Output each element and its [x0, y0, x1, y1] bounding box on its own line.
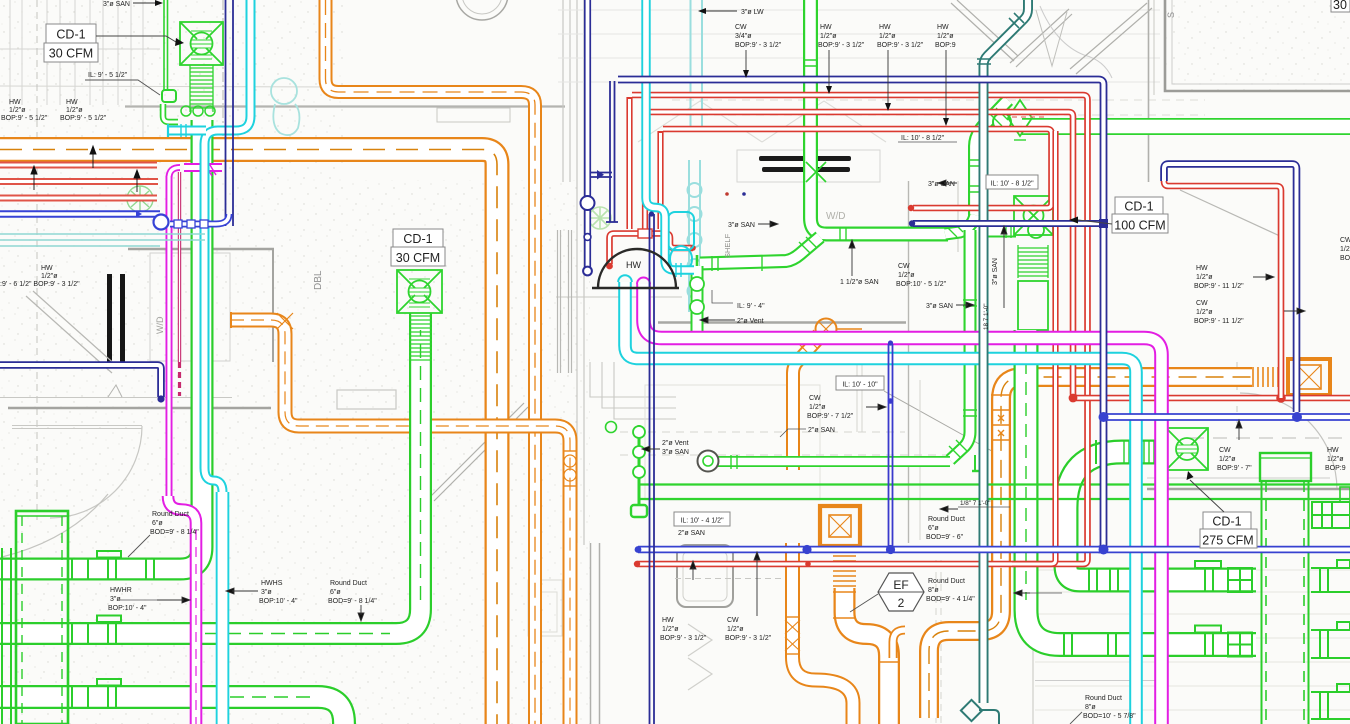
HW dome sink [598, 249, 676, 288]
navy U loop top right [1164, 164, 1297, 412]
svg-text:8"ø: 8"ø [928, 587, 939, 594]
cold water main across [618, 275, 1136, 724]
svg-text:CW: CW [1196, 300, 1208, 307]
duct joint ticks band3 [72, 679, 121, 709]
wall vertical x908 [908, 181, 910, 543]
vent riser duct D with elbow symbol [816, 319, 863, 340]
label box CD-1 100 CFM [1069, 197, 1168, 233]
gray V wing wall [1036, 10, 1067, 66]
flex to diffuser right [1124, 441, 1159, 463]
HWHS HWHR thin lines [640, 485, 1350, 500]
dashed studs mid bottom [935, 560, 937, 724]
svg-text:CD-1: CD-1 [1124, 200, 1153, 214]
svg-text:1/2"ø: 1/2"ø [662, 626, 679, 633]
svg-text:18 7 1'-0": 18 7 1'-0" [983, 303, 990, 330]
round duct S drop to band2 [0, 313, 421, 634]
svg-text:Round Duct: Round Duct [1085, 695, 1122, 702]
svg-text:1/2"ø: 1/2"ø [820, 33, 837, 40]
svg-text:3"ø SAN: 3"ø SAN [728, 222, 755, 229]
floor drain [698, 451, 719, 472]
HW CW labels right [1194, 265, 1244, 325]
shelf lines [12, 425, 142, 427]
ceiling slope lines [638, 101, 886, 142]
svg-text:30 CFM: 30 CFM [49, 47, 93, 61]
svg-text:HW: HW [9, 99, 21, 106]
svg-text:BOP:10' - 4": BOP:10' - 4" [108, 605, 147, 612]
faint dashed lines mid [672, 100, 1205, 130]
door swing arc lower left [2, 494, 108, 557]
svg-text:CD-1: CD-1 [1212, 515, 1241, 529]
counter line y297 [556, 296, 682, 298]
label box CD-1 275 CFM [1187, 471, 1258, 548]
small dots mid [725, 192, 729, 196]
flex connector to damper box [1253, 367, 1283, 387]
svg-text:3"ø SAN: 3"ø SAN [103, 1, 130, 8]
wall vertical x1148 [1148, 0, 1150, 182]
svg-text:CW: CW [735, 24, 747, 31]
svg-text:CW: CW [727, 617, 739, 624]
svg-text:3"ø: 3"ø [110, 596, 121, 603]
svg-text:3"ø: 3"ø [261, 589, 272, 596]
svg-text:3"ø SAN: 3"ø SAN [992, 258, 999, 285]
svg-text:BOP:9' - 11 1/2": BOP:9' - 11 1/2" [1194, 318, 1244, 325]
cyan fixture riser mid [646, 0, 694, 277]
svg-text:IL: 10' - 10": IL: 10' - 10" [842, 382, 878, 389]
navy horizontal mid right [909, 219, 1108, 228]
navy pair mid vertical [649, 211, 654, 724]
round duct R drop to band1 [0, 120, 202, 569]
wall vertical x273 [272, 249, 274, 362]
right edge band stubs [1311, 560, 1350, 719]
wall section black bar 2 [120, 274, 125, 366]
wall verticals x557 x568 [558, 230, 572, 373]
fire damper box middle [820, 506, 860, 546]
navy tee fitting [590, 170, 612, 180]
concrete speckle storage room top right [1166, 0, 1350, 91]
door leaf diagonal [430, 403, 528, 501]
counter ledge [437, 108, 510, 122]
concrete speckle middle band [345, 180, 590, 724]
supply duct A riser top-left [326, 0, 536, 724]
diffuser CD-1 mid-left with flex [397, 270, 442, 313]
fitting cluster right mid [1312, 487, 1350, 528]
svg-text:BOP:9: BOP:9 [935, 42, 956, 49]
svg-text:HW: HW [937, 24, 949, 31]
svg-text:IL: 10' - 4 1/2": IL: 10' - 4 1/2" [680, 518, 724, 525]
svg-text:W/D: W/D [155, 316, 165, 334]
svg-text:1/2"ø: 1/2"ø [1219, 456, 1236, 463]
svg-text:6"ø: 6"ø [928, 525, 939, 532]
door jamb [108, 385, 122, 397]
exhaust duct F jog left [785, 543, 853, 724]
laundry room outline [150, 253, 230, 361]
cleanout stub [972, 455, 988, 471]
svg-text:BOP:9' - 5 1/2": BOP:9' - 5 1/2" [60, 115, 107, 122]
svg-text:1/2: 1/2 [1340, 246, 1350, 253]
CW BOP 9-7 labels mid [807, 395, 854, 420]
label box 30 partial top right [1331, 0, 1350, 12]
svg-text:3"ø SAN: 3"ø SAN [662, 449, 689, 456]
svg-text:3"ø SAN: 3"ø SAN [926, 303, 953, 310]
top label leaders [743, 50, 949, 126]
left edge duct riser [2, 548, 11, 724]
svg-text:HW: HW [41, 265, 53, 272]
faint ceiling grid top middle [558, 10, 1160, 82]
svg-text:CW: CW [898, 263, 910, 270]
HW pipe B long [647, 112, 1350, 403]
svg-text:BOP:9' - 3 1/2": BOP:9' - 3 1/2" [660, 635, 707, 642]
grid dashed column line [36, 0, 38, 520]
svg-text:1/2"ø: 1/2"ø [809, 404, 826, 411]
svg-text:HW: HW [662, 617, 674, 624]
svg-text:2: 2 [898, 596, 905, 610]
svg-text:EF: EF [893, 578, 908, 592]
svg-text:BOD=9' - 8 1/4": BOD=9' - 8 1/4" [150, 529, 199, 536]
wall line y322 [658, 321, 906, 324]
svg-text:HW: HW [1327, 447, 1339, 454]
svg-text:W/D: W/D [826, 211, 845, 222]
grid dash-dot line [222, 0, 224, 162]
door swing arc [50, 426, 142, 518]
svg-text:1/2"ø: 1/2"ø [937, 33, 954, 40]
svg-text:BOD=9' - 8 1/4": BOD=9' - 8 1/4" [328, 598, 377, 605]
wall section black bar 1 [107, 274, 112, 366]
svg-text:HWHR: HWHR [110, 587, 132, 594]
LW teal riser [977, 0, 1028, 703]
HW pipe left 2 [0, 178, 158, 185]
big vertical plenum left [16, 511, 68, 724]
blue pump line left [0, 211, 229, 230]
return duct riser to band2 right [1026, 330, 1256, 645]
fire damper box right [1288, 359, 1330, 395]
svg-text:Round Duct: Round Duct [928, 516, 965, 523]
faint floor lines bottom right [1035, 570, 1350, 710]
tile chevrons [688, 624, 712, 690]
svg-text:BOP:10' - 4": BOP:10' - 4" [259, 598, 298, 605]
leader diagonal to drain [884, 391, 1008, 460]
svg-text:DBL: DBL [313, 270, 324, 290]
diffuser CD-1 275 right [1166, 428, 1208, 470]
exhaust grille square mid [1014, 196, 1053, 238]
diffuser CD-1 top-left with flex [180, 22, 223, 65]
CW BOP 10-5 label [896, 263, 947, 288]
flex below damper box [833, 551, 856, 586]
millwork box [737, 150, 880, 182]
red risers to lav manifold [630, 97, 661, 229]
svg-text:CD-1: CD-1 [403, 232, 432, 246]
light teal lines left [0, 234, 205, 246]
navy riser with valve [581, 0, 595, 275]
duct E couplings [991, 395, 1011, 440]
Round Duct 6 label green [328, 580, 377, 605]
CW CD labels right mid [1217, 447, 1252, 472]
svg-text:1/2"ø: 1/2"ø [898, 272, 915, 279]
svg-text:1/2"ø: 1/2"ø [1327, 456, 1344, 463]
svg-text:HW: HW [1196, 265, 1208, 272]
svg-text:1/2"ø: 1/2"ø [727, 626, 744, 633]
top labels row [735, 9, 956, 49]
curtain arcs [1040, 6, 1112, 78]
svg-text:BOP:9' - 5 1/2": BOP:9' - 5 1/2" [1, 115, 48, 122]
ghost fan symbol [589, 207, 611, 229]
svg-text:1 1/2"ø SAN: 1 1/2"ø SAN [840, 279, 879, 286]
svg-text:Round Duct: Round Duct [330, 580, 367, 587]
roof diagonal right [1180, 190, 1282, 237]
svg-text:275 CFM: 275 CFM [1202, 534, 1253, 548]
sanitary wye west leg [945, 215, 975, 237]
navy riser pair left [226, 0, 234, 226]
svg-text:2"ø SAN: 2"ø SAN [808, 427, 835, 434]
svg-text:S: S [1166, 12, 1176, 18]
svg-text:IL: 10' - 8 1/2": IL: 10' - 8 1/2" [990, 181, 1034, 188]
WC cyan fixture [668, 212, 694, 272]
svg-text:BOP:10' - 5 1/2": BOP:10' - 5 1/2" [896, 281, 947, 288]
svg-text:2"ø Vent: 2"ø Vent [737, 318, 764, 325]
svg-text:HW: HW [66, 99, 78, 106]
exhaust duct G jog [833, 588, 900, 724]
svg-text:BOP:9' - 3 1/2": BOP:9' - 3 1/2" [818, 42, 865, 49]
svg-text:BOP:9' - 3 1/2": BOP:9' - 3 1/2" [735, 42, 782, 49]
svg-text:IL: 10' - 8 1/2": IL: 10' - 8 1/2" [901, 135, 945, 142]
wall line y249 [128, 248, 274, 250]
svg-text:HW: HW [626, 260, 641, 270]
wall verticals x590 x599 bottom [590, 543, 592, 724]
cyan drop lower widen [216, 492, 230, 724]
svg-text:2"ø Vent: 2"ø Vent [662, 440, 689, 447]
cold water top-left run [168, 0, 251, 724]
door swing arc right [1240, 393, 1337, 490]
svg-text:CW: CW [809, 395, 821, 402]
svg-text:3/4"ø: 3/4"ø [735, 33, 752, 40]
drain line to floor drain [718, 455, 950, 469]
closet shelf bar 1 [759, 156, 851, 161]
svg-text:HWHS: HWHS [261, 580, 283, 587]
svg-text:100 CFM: 100 CFM [1114, 219, 1165, 233]
CW partial right edge [1340, 237, 1350, 262]
svg-text:BOP: BOP [1340, 255, 1350, 262]
Round Duct 6 label mid [926, 516, 965, 541]
svg-text:1/2"ø: 1/2"ø [66, 107, 83, 114]
sanitary main 3in SAN riser [803, 0, 948, 241]
svg-text:BOP:9' - 3 1/2": BOP:9' - 3 1/2" [725, 635, 772, 642]
svg-text:BOP:9' - 3 1/2": BOP:9' - 3 1/2" [877, 42, 924, 49]
cabinet box [337, 390, 396, 409]
light aqua ghost lines [271, 78, 299, 135]
band end boxes [1228, 568, 1252, 657]
HW labels left [1, 99, 107, 122]
svg-text:1/2"ø: 1/2"ø [41, 273, 58, 280]
wall line y408 [8, 407, 271, 409]
HWHR label [108, 587, 147, 612]
duct band3 [0, 697, 344, 724]
svg-text:BOD=10' - 5 7/8": BOD=10' - 5 7/8" [1083, 713, 1136, 720]
stair diagonal to storage [1070, 3, 1152, 74]
lavatory circle top middle [456, 0, 508, 20]
EF 2 hexagon [850, 573, 924, 612]
left arrow bottom right room [1014, 590, 1030, 596]
floor line y680 [1035, 680, 1160, 682]
svg-text:2"ø SAN: 2"ø SAN [678, 530, 705, 537]
HW loop top right [1161, 169, 1281, 398]
HW CW bottom labels [660, 617, 707, 642]
sanitary drop left of branch [690, 266, 704, 332]
Round Duct 6 label magenta [150, 511, 199, 536]
svg-text:1/2"ø: 1/2"ø [1196, 309, 1213, 316]
light aqua pipes top middle [688, 0, 703, 312]
room partition lines mid [620, 362, 960, 540]
svg-text:CW: CW [1340, 237, 1350, 244]
svg-text:Round Duct: Round Duct [928, 578, 965, 585]
CW pipe C [663, 129, 1052, 211]
exhaust duct E long run [929, 377, 1252, 718]
Round Duct 8 bottom label [1083, 695, 1136, 720]
supply duct B main horizontal [0, 150, 497, 724]
wall line y489 right [1147, 488, 1350, 490]
svg-text:BOP:9' - 11 1/2": BOP:9' - 11 1/2" [1194, 283, 1244, 290]
ceiling fan symbol [127, 186, 153, 212]
duct joint ticks band2 [72, 616, 121, 646]
IL boxes [674, 175, 1038, 526]
stair diagonal [26, 291, 119, 373]
CW riser pair right [1012, 131, 1056, 564]
navy branch down x613 [606, 81, 618, 222]
svg-text:30: 30 [1333, 0, 1347, 12]
svg-text::9' - 6 1/2" BOP:9' - 3 1/2": :9' - 6 1/2" BOP:9' - 3 1/2" [0, 281, 80, 288]
duct section ticks right bands [1064, 440, 1221, 657]
concrete speckle left band [0, 0, 345, 724]
gas pipe left riser [169, 160, 222, 499]
HWHS label [259, 580, 298, 605]
sanitary wye and riser right [968, 100, 1011, 232]
navy supply main top [618, 80, 1104, 550]
heater fitting stack [606, 422, 648, 518]
dashed stud x1237 [1236, 362, 1238, 428]
svg-text:1/2"ø: 1/2"ø [9, 107, 26, 114]
storage room walls [1165, 0, 1350, 91]
stud grid lines top-left [0, 0, 340, 160]
dashed counter line bottom middle [675, 578, 790, 580]
sanitary stack down + 45 to drain [949, 230, 977, 460]
round duct 6 magenta drop [168, 496, 196, 724]
sanitary west branch [697, 237, 820, 272]
flex and boot below grille [1018, 245, 1048, 330]
svg-text:1/8" 7 1'-0": 1/8" 7 1'-0" [960, 500, 991, 507]
gas main magenta across [637, 278, 1162, 724]
navy bottom main [635, 545, 1350, 555]
navy CW main right [1099, 412, 1350, 422]
HW pipe A long [632, 95, 1088, 567]
wall face line y397 [0, 397, 232, 399]
wall verticals mid top [563, 0, 584, 545]
supply duct to diffuser right [1066, 452, 1256, 580]
svg-text:Round Duct: Round Duct [152, 511, 189, 518]
wall line y106 [125, 105, 565, 107]
svg-text:3"ø LW: 3"ø LW [741, 9, 764, 16]
label box CD-1 30 CFM mid [391, 229, 445, 266]
svg-text:1/2"ø: 1/2"ø [879, 33, 896, 40]
svg-text:BOD=9' - 4 1/4": BOD=9' - 4 1/4" [926, 596, 975, 603]
closet shelf bar 2 [762, 167, 850, 172]
teal drop elbow [961, 700, 999, 724]
svg-text:IL: 9' - 4": IL: 9' - 4" [737, 303, 765, 310]
branch duct C [231, 312, 577, 724]
svg-text:1/2"ø: 1/2"ø [1196, 274, 1213, 281]
svg-text:BOP:9' - 7": BOP:9' - 7" [1217, 465, 1252, 472]
HW pipe left 3 [0, 195, 157, 202]
label box CD-1 30 CFM top-left [44, 24, 184, 62]
HW pipe left 1 [0, 162, 157, 169]
svg-text:6"ø: 6"ø [330, 589, 341, 596]
sanitary drop with trap top-left [162, 0, 215, 122]
valve diamond [1008, 100, 1032, 140]
svg-text:8"ø: 8"ø [1085, 704, 1096, 711]
duct joint ticks band1 [72, 551, 154, 581]
svg-text:CW: CW [1219, 447, 1231, 454]
vertical chase ducts right [1260, 453, 1311, 724]
svg-text:HW: HW [820, 24, 832, 31]
appliance boxes [528, 580, 562, 636]
svg-text:BOP:9' - 7 1/2": BOP:9' - 7 1/2" [807, 413, 854, 420]
wall vertical x958 [957, 181, 959, 252]
bathtub outline bottom middle [677, 545, 733, 607]
soffit corner steps [590, 362, 676, 419]
crimson riser [178, 172, 181, 362]
svg-text:BOP:9: BOP:9 [1325, 465, 1346, 472]
svg-text:CD-1: CD-1 [56, 28, 85, 42]
Round Duct 8 EF label [926, 578, 975, 603]
small return bend [893, 630, 905, 658]
svg-text:SHELF: SHELF [723, 233, 732, 258]
svg-text:6"ø: 6"ø [152, 520, 163, 527]
HW labels left lower [0, 265, 80, 288]
attic diagonal braces [951, 0, 1018, 61]
sanitary east leg to grille [982, 224, 1016, 238]
navy left bottom corner [0, 365, 165, 403]
lav manifold [606, 229, 696, 269]
royal blue riser mid [888, 340, 894, 546]
wall vertical x1033 [1032, 585, 1034, 724]
svg-text:HW: HW [879, 24, 891, 31]
svg-text:BOD=9' - 6": BOD=9' - 6" [926, 534, 964, 541]
green duct top right [1022, 118, 1350, 135]
svg-text:IL: 9' - 5 1/2": IL: 9' - 5 1/2" [88, 72, 128, 79]
HW label arrows [31, 166, 37, 190]
svg-text:30 CFM: 30 CFM [396, 251, 440, 265]
dashed ceiling line right [1190, 437, 1350, 439]
